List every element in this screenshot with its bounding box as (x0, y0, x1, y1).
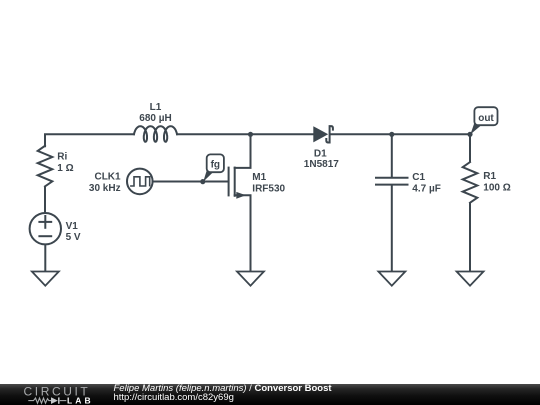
wire R1 to ground (469, 203, 471, 272)
transistor M1 IRF530 (229, 135, 286, 271)
svg-text:5 V: 5 V (66, 232, 81, 243)
wire top-left from Ri up and right to L1 (45, 134, 134, 146)
svg-text:Ri: Ri (57, 152, 67, 163)
svg-text:R1: R1 (483, 171, 496, 182)
svg-text:100 Ω: 100 Ω (483, 182, 510, 193)
capacitor C1 4.7 µF (376, 172, 441, 194)
ground under M1 (237, 272, 264, 286)
wire Ri to V1 (44, 186, 46, 213)
svg-text:1 Ω: 1 Ω (57, 163, 73, 174)
flag out (470, 107, 497, 134)
resistor R1 100 Ω (463, 162, 511, 203)
diode D1 1N5817 (304, 126, 339, 170)
svg-text:4.7 µF: 4.7 µF (412, 184, 441, 195)
clock source CLK1 30 kHz (89, 169, 153, 195)
svg-text:fg: fg (211, 160, 220, 171)
svg-text:L1: L1 (150, 102, 162, 113)
svg-text:30 kHz: 30 kHz (89, 183, 121, 194)
ground under C1 (378, 272, 405, 286)
svg-text:680 µH: 680 µH (139, 113, 171, 124)
ground under V1 (32, 272, 59, 286)
junction on gate wire (200, 179, 205, 184)
footer bar (0, 384, 540, 405)
junction at out node (467, 132, 472, 137)
flag fg (203, 154, 224, 181)
svg-text:V1: V1 (66, 221, 79, 232)
svg-text:IRF530: IRF530 (252, 183, 285, 194)
svg-text:C1: C1 (412, 172, 425, 183)
wire L1 to D1 anode (177, 133, 313, 135)
wire V1 to ground (44, 244, 46, 271)
voltage source V1 5 V (30, 213, 81, 244)
resistor Ri (38, 146, 74, 187)
wire out node to R1 (469, 134, 471, 162)
wire CLK1 to gate of M1 (153, 181, 228, 183)
wire top to C1 (391, 134, 393, 177)
junction at M1 drain on top wire (248, 132, 253, 137)
svg-text:1N5817: 1N5817 (304, 159, 339, 170)
svg-text:out: out (478, 113, 494, 124)
ground under R1 (457, 272, 484, 286)
svg-text:M1: M1 (252, 172, 266, 183)
wire D1 cathode to out node (330, 133, 470, 135)
svg-text:CLK1: CLK1 (94, 172, 121, 183)
inductor L1 (134, 102, 177, 142)
svg-text:LAB: LAB (67, 396, 94, 405)
svg-text:D1: D1 (314, 149, 327, 160)
junction at C1 on top wire (389, 132, 394, 137)
wire C1 to ground (391, 185, 393, 271)
